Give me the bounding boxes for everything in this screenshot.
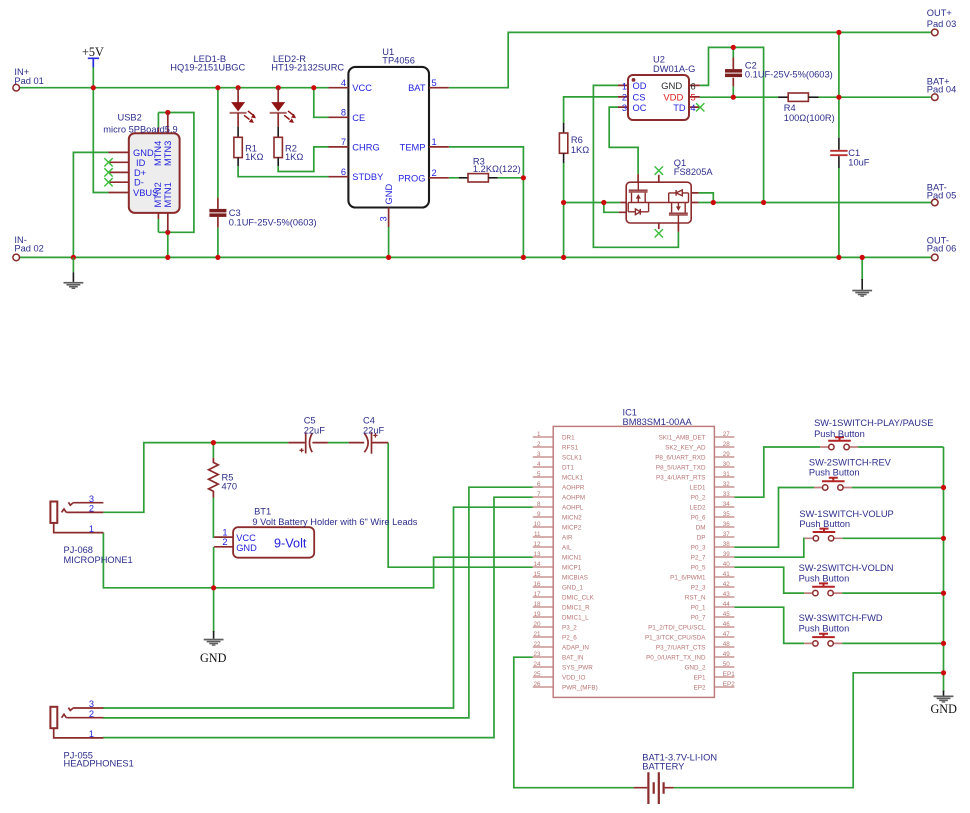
svg-text:MTN2: MTN2	[153, 182, 163, 207]
connector USB2 micro 5PBoard5.9	[103, 113, 179, 233]
svg-text:AOHPM: AOHPM	[562, 495, 585, 502]
svg-text:7: 7	[537, 491, 541, 498]
wire U2 OD to Q1 gate2	[593, 85, 678, 247]
wire SW2 right	[852, 487, 944, 489]
svg-text:P0_7: P0_7	[691, 615, 706, 622]
svg-text:STDBY: STDBY	[352, 172, 383, 182]
wire C3 bottom	[217, 227, 219, 257]
svg-text:HT19-2132SURC: HT19-2132SURC	[271, 63, 344, 73]
wire C2 stubs	[732, 47, 734, 97]
switch SW-3SWITCH-FWD	[799, 613, 883, 646]
svg-text:12: 12	[533, 541, 541, 548]
svg-text:PWR_(MFB): PWR_(MFB)	[562, 685, 598, 692]
wire SW5 to P0_1 pin44	[734, 607, 804, 643]
svg-text:30: 30	[723, 461, 731, 468]
svg-text:22: 22	[533, 641, 541, 648]
svg-text:GND: GND	[200, 651, 227, 665]
svg-text:23: 23	[533, 651, 541, 658]
svg-text:10: 10	[533, 521, 541, 528]
no-connect X on Q1 top pin	[655, 166, 663, 174]
svg-text:USB2: USB2	[118, 113, 142, 123]
wire Q1 source2 to BAT-	[604, 203, 619, 213]
junction at 213.4,442.6	[211, 440, 216, 445]
wire C3 top	[217, 88, 219, 198]
svg-text:9: 9	[537, 511, 541, 518]
wire BAT- rail	[564, 202, 932, 204]
wire mic pin2 node to C5	[103, 443, 288, 513]
pad BAT+ Pad 04	[927, 76, 956, 100]
svg-text:PROG: PROG	[398, 173, 425, 183]
svg-text:4: 4	[341, 78, 346, 88]
svg-text:DMIC_CLK: DMIC_CLK	[562, 595, 595, 602]
svg-text:42: 42	[723, 581, 731, 588]
svg-text:SW-3SWITCH-FWD: SW-3SWITCH-FWD	[799, 613, 883, 623]
svg-text:8: 8	[341, 108, 346, 118]
svg-text:GND: GND	[661, 81, 682, 92]
wire LED2 R2 to CHRG	[278, 147, 328, 172]
junction at 763.6,202.5	[761, 200, 766, 205]
svg-text:Push Button: Push Button	[799, 623, 850, 633]
svg-text:1: 1	[222, 527, 227, 537]
wire U1 GND pin to rail	[388, 227, 390, 257]
resistor R3 1.2K	[459, 156, 521, 182]
svg-text:VCC: VCC	[352, 83, 372, 93]
svg-text:P0_2: P0_2	[691, 495, 706, 502]
wire USB MTN loop	[158, 113, 194, 258]
svg-text:P3_4/UART_RTS: P3_4/UART_RTS	[656, 475, 705, 482]
svg-text:HEADPHONES1: HEADPHONES1	[64, 758, 134, 768]
svg-text:EP1: EP1	[694, 675, 706, 682]
svg-text:MICBIAS: MICBIAS	[562, 575, 588, 582]
LED LED2-R HT19-2132SURC	[270, 54, 345, 127]
wire SW3 right	[843, 537, 944, 539]
svg-text:15: 15	[533, 571, 541, 578]
connector PJ-068 MICROPHONE1 jack	[50, 494, 132, 565]
svg-text:21: 21	[533, 631, 541, 638]
svg-text:46: 46	[723, 621, 731, 628]
svg-text:32: 32	[723, 481, 731, 488]
wire R5 leads	[212, 443, 215, 537]
wire OUT+ to BAT+ vertical	[838, 32, 840, 97]
svg-text:P2_6: P2_6	[562, 635, 577, 642]
svg-text:P0_1: P0_1	[691, 605, 706, 612]
svg-text:P8_5/UART_TXD: P8_5/UART_TXD	[656, 465, 706, 472]
wire SW4 to P0_5 pin40	[734, 567, 804, 593]
svg-text:2: 2	[622, 93, 627, 103]
no-connect X on USB D-	[104, 178, 112, 186]
wire SW4 right	[842, 592, 943, 594]
pad OUT- Pad 06	[927, 235, 956, 260]
battery holder BT1 9-Volt	[214, 507, 418, 558]
svg-text:1KΩ: 1KΩ	[571, 145, 589, 155]
junction at 943.5,487.5	[941, 485, 946, 490]
svg-text:ID: ID	[136, 158, 146, 168]
junction at 167.8,257.4	[165, 255, 170, 260]
svg-text:26: 26	[533, 681, 541, 688]
no-connect X on USB ID	[104, 158, 112, 166]
wire SW1 to P0_2 pin33	[734, 447, 820, 497]
junction at 217.9,87.7	[215, 85, 220, 90]
svg-text:9-Volt: 9-Volt	[274, 536, 307, 550]
junction at 563.6,257.4	[561, 255, 566, 260]
svg-text:CHRG: CHRG	[352, 142, 379, 152]
svg-text:3: 3	[89, 699, 94, 709]
capacitor C4 22uF	[349, 415, 389, 453]
transistor Q1 FS8205A dual MOSFET	[619, 158, 714, 232]
svg-text:36: 36	[723, 521, 731, 528]
svg-text:TEMP: TEMP	[400, 142, 426, 152]
svg-text:Pad 04: Pad 04	[927, 84, 956, 94]
svg-text:2: 2	[537, 441, 541, 448]
svg-text:33: 33	[723, 491, 731, 498]
svg-text:AIL: AIL	[562, 545, 572, 552]
svg-text:P3_7/UART_CTS: P3_7/UART_CTS	[656, 645, 706, 652]
wire USB GND to ground rail	[73, 152, 108, 257]
svg-text:1: 1	[622, 81, 627, 91]
svg-text:38: 38	[723, 541, 731, 548]
svg-text:4: 4	[690, 103, 695, 113]
junction at 73.4,257.4	[71, 255, 76, 260]
svg-text:P0_5: P0_5	[691, 565, 706, 572]
svg-text:P1_2/TDI_CPU/SCL: P1_2/TDI_CPU/SCL	[648, 625, 706, 632]
svg-text:EP2: EP2	[723, 681, 735, 688]
svg-text:1KΩ: 1KΩ	[285, 152, 303, 162]
svg-text:2: 2	[432, 168, 437, 178]
svg-text:MICN2: MICN2	[562, 515, 582, 522]
svg-text:22uF: 22uF	[363, 425, 385, 435]
pad OUT+ Pad 03	[927, 8, 956, 36]
junction at 93.3,87.7	[91, 85, 96, 90]
IC U2 DW01A-G protection	[618, 54, 700, 120]
junction at 167.8,112.5	[165, 110, 170, 115]
svg-text:GND: GND	[384, 184, 394, 205]
svg-text:1: 1	[537, 431, 541, 438]
svg-text:40: 40	[723, 561, 731, 568]
junction at 862.2,257.4	[860, 255, 865, 260]
svg-text:5: 5	[537, 471, 541, 478]
svg-text:49: 49	[723, 651, 731, 658]
svg-text:EP2: EP2	[694, 685, 706, 692]
svg-text:AOHPR: AOHPR	[562, 485, 585, 492]
junction at 563.6,202.5	[561, 200, 566, 205]
svg-text:7: 7	[341, 137, 346, 147]
junction at 213.6,587.8	[211, 585, 216, 590]
svg-text:P8_6/UART_RXD: P8_6/UART_RXD	[655, 455, 706, 462]
svg-text:BATTERY: BATTERY	[642, 761, 684, 771]
junction at 603.8,202.5	[601, 200, 606, 205]
capacitor C1 10uF	[830, 138, 870, 168]
svg-text:C4: C4	[363, 415, 375, 425]
svg-text:37: 37	[723, 531, 731, 538]
svg-text:44: 44	[723, 601, 731, 608]
svg-text:SW-1SWITCH-VOLUP: SW-1SWITCH-VOLUP	[799, 509, 893, 519]
svg-text:DM: DM	[696, 525, 706, 532]
svg-text:MTN3: MTN3	[163, 141, 173, 166]
junction at 943.5,593.1	[941, 591, 946, 596]
svg-text:Push Button: Push Button	[814, 429, 865, 439]
svg-text:CS: CS	[633, 93, 646, 103]
svg-text:1: 1	[89, 524, 94, 534]
svg-text:MICP1: MICP1	[562, 565, 582, 572]
junction at 523.4,257.4	[521, 255, 526, 260]
wire SW2 to P0_3 pin38	[734, 488, 814, 548]
svg-text:MTN1: MTN1	[163, 182, 173, 207]
capacitor C3 0.1UF	[209, 198, 316, 228]
svg-text:BAT_IN: BAT_IN	[562, 655, 584, 662]
svg-text:R6: R6	[571, 135, 583, 145]
wire headphone pin1 to AOHPM pin7	[103, 497, 533, 737]
wire switch common ground vertical	[943, 447, 945, 692]
svg-text:Pad 01: Pad 01	[14, 76, 43, 86]
svg-text:1: 1	[89, 729, 94, 739]
wire BAT to OUT+ rail	[449, 32, 932, 87]
svg-text:2: 2	[89, 504, 94, 514]
svg-text:50: 50	[723, 661, 731, 668]
svg-text:Push Button: Push Button	[809, 468, 860, 478]
svg-text:SW-2SWITCH-REV: SW-2SWITCH-REV	[809, 458, 892, 468]
junction at 943.5,538.3	[941, 536, 946, 541]
svg-text:DP: DP	[697, 535, 706, 542]
svg-text:R4: R4	[784, 103, 796, 113]
svg-text:Pad 05: Pad 05	[927, 191, 956, 201]
junction at 943.5,672.8	[941, 670, 946, 675]
svg-text:31: 31	[723, 471, 731, 478]
wire C1 leads	[838, 97, 840, 257]
svg-text:2: 2	[222, 537, 227, 547]
wire TEMP to ground	[449, 147, 524, 258]
wire headphone pin3 to AOHPL pin8	[103, 507, 533, 708]
svg-text:U2: U2	[653, 54, 665, 64]
svg-text:6: 6	[341, 167, 346, 177]
svg-text:43: 43	[723, 591, 731, 598]
wire LED1 R1 to STDBY	[238, 166, 328, 177]
svg-text:4: 4	[537, 461, 541, 468]
svg-text:17: 17	[533, 591, 541, 598]
wire C4 to MICP1 pin14	[388, 443, 533, 568]
junction at 523.4,177.8	[521, 175, 526, 180]
connector PJ-055 HEADPHONES1 jack	[50, 699, 133, 768]
svg-text:SKI1_AMB_DET: SKI1_AMB_DET	[659, 435, 706, 442]
junction at 278.2,87.7	[276, 85, 281, 90]
battery BAT1-3.7V-LI-ION	[634, 752, 717, 804]
svg-text:LED1: LED1	[690, 485, 706, 492]
svg-text:TP4056: TP4056	[382, 56, 415, 66]
junction at 733.3,97.2	[731, 95, 736, 100]
wire CE branch	[314, 88, 329, 118]
svg-text:PJ-068: PJ-068	[64, 545, 93, 555]
svg-text:47: 47	[723, 631, 731, 638]
ground symbol switches with GND label	[931, 691, 958, 716]
svg-text:MICP2: MICP2	[562, 525, 582, 532]
svg-text:SCLK1: SCLK1	[562, 455, 582, 462]
svg-text:2: 2	[89, 709, 94, 719]
svg-text:3: 3	[622, 103, 627, 113]
wire SW1 right	[858, 446, 943, 448]
svg-text:+5V: +5V	[82, 45, 104, 59]
svg-text:GND: GND	[931, 702, 958, 716]
svg-text:RST_N: RST_N	[685, 595, 706, 602]
switch SW-1SWITCH-PLAY/PAUSE	[814, 418, 933, 450]
svg-text:SYS_PWR: SYS_PWR	[562, 665, 593, 672]
svg-text:P2_3: P2_3	[691, 585, 706, 592]
svg-text:LED2: LED2	[690, 505, 706, 512]
svg-text:GND_2: GND_2	[685, 665, 706, 672]
svg-text:18: 18	[533, 601, 541, 608]
wire BAT_IN pin23 to battery plus	[514, 657, 634, 788]
svg-text:TD: TD	[673, 103, 686, 113]
wire U2 GND6 to C2 top to BAT-	[700, 47, 764, 202]
svg-text:C3: C3	[229, 208, 241, 218]
ground symbol right (OUT-)	[852, 279, 872, 297]
switch SW-2SWITCH-REV	[809, 458, 892, 491]
junction at 838.9,97.2	[836, 95, 841, 100]
svg-text:P3_2: P3_2	[562, 625, 577, 632]
wire BAT+ rail	[700, 96, 932, 98]
pad BAT- Pad 05	[927, 182, 956, 205]
no-connect X on U2 TD	[696, 103, 704, 111]
svg-text:MCLK1: MCLK1	[562, 475, 583, 482]
no-connect X on USB D+	[104, 168, 112, 176]
svg-text:C5: C5	[304, 415, 316, 425]
svg-text:9 Volt Battery Holder with 6": 9 Volt Battery Holder with 6" Wire Leads	[252, 517, 417, 527]
wire +5V rail IN+ to U1 VCC	[19, 87, 328, 89]
svg-text:3: 3	[537, 451, 541, 458]
svg-text:MICROPHONE1: MICROPHONE1	[64, 555, 133, 565]
resistor R6 1K	[559, 123, 589, 163]
svg-text:OUT+: OUT+	[927, 8, 952, 18]
svg-text:29: 29	[723, 451, 731, 458]
svg-text:GND_1: GND_1	[562, 585, 583, 592]
svg-text:1: 1	[432, 137, 437, 147]
svg-text:ADAP_IN: ADAP_IN	[562, 645, 589, 652]
svg-text:1KΩ: 1KΩ	[245, 152, 263, 162]
wire headphone pin2 to AOHPR pin6	[103, 487, 533, 718]
junction at 388.6,257.4	[386, 255, 391, 260]
svg-text:P1_6/PWM1: P1_6/PWM1	[670, 575, 706, 582]
svg-text:48: 48	[723, 641, 731, 648]
svg-text:0.1UF-25V-5%(0603): 0.1UF-25V-5%(0603)	[229, 218, 317, 228]
svg-text:MICN1: MICN1	[562, 555, 582, 562]
svg-text:IC1: IC1	[623, 408, 637, 418]
svg-text:D+: D+	[134, 168, 146, 178]
capacitor C2 0.1UF	[725, 58, 833, 87]
svg-text:EP1: EP1	[723, 671, 735, 678]
svg-text:Pad 03: Pad 03	[927, 19, 956, 29]
svg-text:3: 3	[378, 216, 388, 221]
junction at 943.5,643.4	[941, 641, 946, 646]
wire battery minus to ground net	[674, 673, 944, 788]
svg-text:8: 8	[537, 501, 541, 508]
switch SW-2SWITCH-VOLDN	[799, 563, 894, 596]
svg-text:P1_3/TCK_CPU/SDA: P1_3/TCK_CPU/SDA	[645, 635, 706, 642]
svg-text:28: 28	[723, 441, 731, 448]
wire ground stub right	[861, 257, 863, 280]
switch SW-1SWITCH-VOLUP	[799, 509, 893, 541]
ground symbol mic/BT1 with GND label	[200, 631, 227, 665]
resistor R2 1K	[274, 127, 303, 166]
svg-text:25: 25	[533, 671, 541, 678]
svg-text:P0_3: P0_3	[691, 545, 706, 552]
junction at 313.8,87.7	[311, 85, 316, 90]
junction at 838.9,32.4	[836, 30, 841, 35]
svg-text:20: 20	[533, 621, 541, 628]
wire BT1 GND to ground	[213, 547, 215, 632]
svg-text:SW-1SWITCH-PLAY/PAUSE: SW-1SWITCH-PLAY/PAUSE	[814, 418, 933, 428]
svg-text:27: 27	[723, 431, 731, 438]
junction at 217.9,257.4	[215, 255, 220, 260]
resistor R4 100R	[778, 93, 835, 123]
junction at 167.8,232.3	[165, 230, 170, 235]
wire C5 to C4	[328, 442, 349, 444]
svg-text:VDD: VDD	[663, 92, 683, 103]
svg-text:AIR: AIR	[562, 535, 573, 542]
svg-text:DMIC1_R: DMIC1_R	[562, 605, 590, 612]
svg-text:AOHPL: AOHPL	[562, 505, 584, 512]
junction at 733.3,47.4	[731, 45, 736, 50]
svg-text:BM83SM1-00AA: BM83SM1-00AA	[623, 417, 693, 427]
svg-text:Pad 06: Pad 06	[927, 244, 956, 254]
wire mic pin1 ground to MICN1 pin13	[103, 533, 532, 588]
svg-text:SK2_KEY_AD: SK2_KEY_AD	[665, 445, 706, 452]
svg-text:11: 11	[534, 531, 541, 538]
svg-text:6: 6	[690, 81, 695, 92]
svg-text:DR1: DR1	[562, 435, 575, 442]
wire GND rail (IN- to OUT- Pad 06)	[19, 256, 931, 258]
wire +5V vertical to VBUS	[93, 67, 108, 193]
svg-text:SW-2SWITCH-VOLDN: SW-2SWITCH-VOLDN	[799, 563, 894, 573]
svg-text:6: 6	[537, 481, 541, 488]
svg-text:3: 3	[89, 494, 94, 504]
svg-text:P0_6: P0_6	[691, 515, 706, 522]
svg-text:34: 34	[723, 501, 731, 508]
svg-text:D-: D-	[134, 178, 144, 188]
svg-text:DMIC1_L: DMIC1_L	[562, 615, 589, 622]
svg-text:Push Button: Push Button	[799, 519, 850, 529]
svg-text:14: 14	[533, 561, 541, 568]
IC IC1 BM83SM1-00AA bluetooth module	[533, 408, 735, 698]
svg-text:HQ19-2151UBGC: HQ19-2151UBGC	[170, 63, 245, 73]
svg-text:10uF: 10uF	[848, 158, 870, 168]
pad IN- Pad 02	[13, 235, 44, 261]
svg-text:41: 41	[723, 571, 731, 578]
svg-text:BAT: BAT	[408, 83, 426, 93]
wire U2 OC to Q1 gate1	[609, 107, 638, 174]
svg-text:1.2KΩ(122): 1.2KΩ(122)	[473, 164, 521, 174]
LED LED1-B HQ19-2151UBGC	[170, 54, 256, 127]
resistor R5 470	[209, 458, 237, 498]
junction at 238.1,87.7	[236, 85, 241, 90]
svg-text:Pad 02: Pad 02	[14, 244, 43, 254]
svg-text:100Ω(100R): 100Ω(100R)	[784, 113, 835, 123]
svg-text:DT1: DT1	[562, 465, 574, 472]
pad IN+ Pad 01	[13, 67, 44, 91]
wire SW5 right	[842, 642, 943, 644]
svg-text:DW01A-G: DW01A-G	[653, 64, 695, 74]
svg-text:24: 24	[533, 661, 541, 668]
svg-text:BT1: BT1	[254, 507, 271, 517]
svg-text:OC: OC	[633, 103, 647, 113]
svg-text:GND: GND	[133, 148, 154, 158]
ground symbol near USB	[64, 257, 84, 289]
svg-text:micro 5PBoard5.9: micro 5PBoard5.9	[103, 124, 177, 134]
svg-text:470: 470	[222, 482, 238, 492]
power +5V symbol	[82, 45, 104, 67]
svg-text:OD: OD	[633, 81, 647, 91]
wire Q1 drain right to BAT-	[699, 193, 714, 203]
svg-text:22uF: 22uF	[304, 425, 326, 435]
svg-text:Push Button: Push Button	[799, 573, 850, 583]
svg-text:45: 45	[723, 611, 731, 618]
